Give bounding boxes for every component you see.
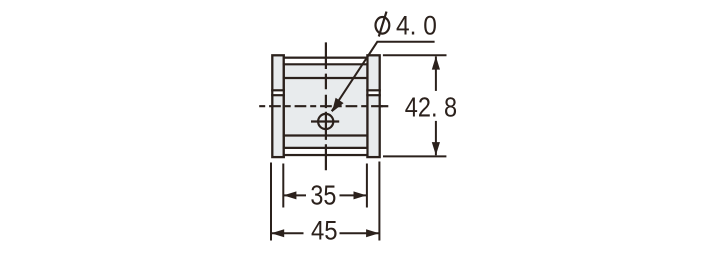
dim 42.8 extension line top — [383, 54, 447, 56]
dim 35 arrow left — [283, 191, 296, 199]
body top white band — [285, 59, 366, 63]
dim 42.8 arrow down — [432, 142, 440, 155]
groove line top 1 — [283, 63, 369, 65]
dim 45 arrow right — [366, 229, 379, 237]
dim 35 line right segment — [340, 194, 367, 196]
groove line top 2 — [283, 77, 369, 79]
groove line bottom 2 — [283, 147, 369, 149]
dim 42.8 line lower segment — [435, 121, 437, 155]
dim 45 line left segment — [271, 232, 304, 234]
svg-text:35: 35 — [310, 179, 336, 210]
horizontal centerline — [259, 105, 384, 107]
diameter symbol — [376, 17, 390, 34]
vertical centerline — [325, 42, 327, 170]
svg-text:45: 45 — [311, 215, 338, 245]
dim 42.8 line upper segment — [435, 56, 437, 91]
left flange — [272, 55, 284, 157]
dim 42.8 extension line bottom — [383, 155, 446, 157]
dim 45 arrow left — [271, 229, 284, 237]
leader arrowhead — [332, 98, 344, 112]
dim 35 extension line right — [366, 164, 368, 208]
body bottom white band — [285, 149, 366, 154]
dim 35 extension line left — [282, 164, 284, 208]
right flange — [367, 55, 379, 157]
dim 45 extension line right — [378, 162, 380, 241]
leader line — [332, 42, 435, 111]
dim 35 line left segment — [283, 194, 306, 196]
right flange break band — [369, 90, 379, 95]
svg-text:4. 0: 4. 0 — [396, 10, 437, 40]
dim 45 extension line left — [270, 163, 272, 241]
groove line bottom 1 — [283, 134, 369, 136]
hole cross line — [311, 120, 339, 122]
hole — [318, 114, 333, 129]
dim 35 arrow right — [354, 191, 367, 199]
left flange break band — [273, 90, 282, 95]
svg-text:42. 8: 42. 8 — [405, 92, 457, 123]
dim 42.8 arrow up — [432, 56, 440, 69]
dim 45 line right segment — [340, 232, 380, 234]
body — [284, 58, 368, 155]
